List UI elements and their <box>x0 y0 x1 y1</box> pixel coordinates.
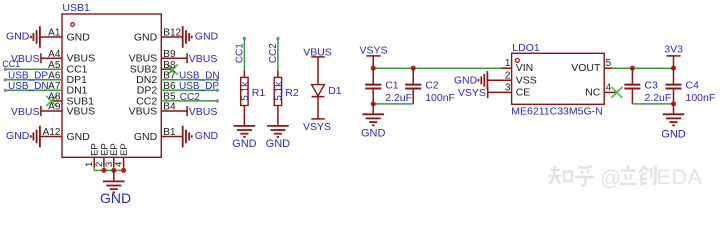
svg-text:VBUS: VBUS <box>129 105 158 117</box>
svg-text:VSYS: VSYS <box>359 45 387 57</box>
svg-text:VBUS: VBUS <box>189 106 218 118</box>
svg-text:2.2uF: 2.2uF <box>385 92 412 104</box>
svg-text:LDO1: LDO1 <box>512 42 540 54</box>
svg-text:@: @ <box>600 167 621 190</box>
svg-text:B8: B8 <box>163 60 176 71</box>
svg-text:VOUT: VOUT <box>571 62 601 74</box>
svg-text:VSYS: VSYS <box>303 121 331 133</box>
svg-text:B6: B6 <box>163 81 176 92</box>
svg-text:A7: A7 <box>48 81 61 92</box>
svg-text:USB_DP: USB_DP <box>8 71 48 82</box>
svg-text:4: 4 <box>114 162 125 167</box>
svg-text:EP: EP <box>119 143 130 156</box>
svg-text:CC2: CC2 <box>180 92 200 103</box>
svg-text:A4: A4 <box>48 49 61 60</box>
svg-text:B1: B1 <box>163 127 176 138</box>
svg-text:GND: GND <box>361 128 386 140</box>
svg-text:GND: GND <box>661 128 686 140</box>
svg-text:B4: B4 <box>163 102 176 113</box>
svg-text:B9: B9 <box>163 49 176 60</box>
svg-text:CC1: CC1 <box>235 43 246 63</box>
svg-text:GND: GND <box>134 31 158 43</box>
svg-text:GND: GND <box>6 31 30 43</box>
svg-text:B7: B7 <box>163 70 176 81</box>
svg-text:GND: GND <box>6 130 30 142</box>
svg-text:VBUS: VBUS <box>11 106 40 118</box>
svg-text:A9: A9 <box>48 102 61 113</box>
svg-text:C1: C1 <box>385 80 399 92</box>
svg-text:GND: GND <box>67 131 91 143</box>
svg-text:1: 1 <box>505 58 511 69</box>
svg-text:GND: GND <box>195 130 219 142</box>
svg-text:3V3: 3V3 <box>664 43 683 55</box>
svg-text:R2: R2 <box>285 87 299 99</box>
svg-text:VSYS: VSYS <box>458 87 486 99</box>
svg-text:CC1: CC1 <box>2 59 20 69</box>
svg-text:A5: A5 <box>48 60 61 71</box>
svg-text:USB_DN: USB_DN <box>179 71 220 82</box>
svg-text:2: 2 <box>505 70 511 81</box>
svg-text:R1: R1 <box>252 87 266 99</box>
svg-text:ME6211C33M5G-N: ME6211C33M5G-N <box>511 106 602 118</box>
svg-text:2.2uF: 2.2uF <box>644 92 671 104</box>
svg-text:100nF: 100nF <box>425 92 455 104</box>
svg-text:USB1: USB1 <box>62 2 90 14</box>
svg-text:VIN: VIN <box>516 62 534 74</box>
svg-text:GND: GND <box>100 190 131 204</box>
svg-text:NC: NC <box>585 86 601 98</box>
svg-text:VBUS: VBUS <box>67 105 96 117</box>
svg-text:C4: C4 <box>686 80 700 92</box>
svg-text:3: 3 <box>505 82 511 93</box>
svg-text:GND: GND <box>454 75 478 87</box>
svg-text:B12: B12 <box>163 28 181 39</box>
svg-text:A1: A1 <box>48 28 61 39</box>
svg-text:GND: GND <box>134 131 158 143</box>
svg-text:USB_DP: USB_DP <box>179 81 219 92</box>
svg-text:100nF: 100nF <box>686 92 716 104</box>
svg-text:C2: C2 <box>425 80 439 92</box>
svg-text:GND: GND <box>266 138 291 150</box>
svg-text:VBUS: VBUS <box>189 53 218 65</box>
svg-text:USB_DN: USB_DN <box>8 81 49 92</box>
svg-text:GND: GND <box>67 31 91 43</box>
svg-text:C3: C3 <box>644 80 658 92</box>
svg-text:D1: D1 <box>328 85 342 97</box>
svg-text:CC2: CC2 <box>268 43 279 63</box>
svg-text:CE: CE <box>516 86 531 98</box>
svg-text:A12: A12 <box>43 127 61 138</box>
svg-text:5.1k: 5.1k <box>240 81 251 101</box>
svg-text:GND: GND <box>195 31 219 43</box>
svg-text:A6: A6 <box>48 70 61 81</box>
svg-text:5.1k: 5.1k <box>273 81 284 101</box>
svg-text:EDA: EDA <box>657 165 703 189</box>
svg-text:VSS: VSS <box>516 74 537 86</box>
svg-text:GND: GND <box>232 138 257 150</box>
